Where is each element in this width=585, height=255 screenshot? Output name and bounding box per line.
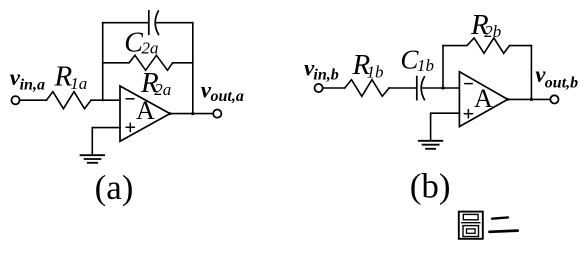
wire feedback right vertical (a) — [192, 23, 194, 114]
ground (a) — [81, 155, 105, 163]
node vin,b input terminal — [315, 84, 323, 92]
svg-text:in,b: in,b — [313, 66, 338, 83]
wire C1b to op-amp inverting input — [423, 87, 460, 89]
resistor R1a — [46, 92, 91, 109]
svg-text:2a: 2a — [154, 80, 171, 99]
node junction output (a) — [191, 112, 194, 115]
ground (b) — [419, 141, 443, 149]
node junction output (b) — [530, 98, 533, 101]
label v_out,a — [201, 77, 244, 105]
svg-text:2b: 2b — [484, 22, 501, 41]
svg-text:A: A — [136, 96, 155, 125]
op-amp A (b) inverting pin minus — [465, 83, 472, 85]
label v_in,a — [10, 65, 45, 93]
label v_in,b — [304, 56, 339, 84]
node vout,b output terminal — [550, 95, 558, 103]
node vout,a output terminal — [213, 110, 221, 118]
wire feedback left vertical (a) — [102, 23, 104, 101]
wire feedback left vertical (b) — [442, 46, 444, 88]
svg-text:1b: 1b — [367, 62, 384, 81]
node junction inverting input (a) — [102, 99, 104, 101]
capacitor C2a — [149, 11, 159, 35]
wire R1b to C1b — [389, 87, 417, 89]
wire output (b) — [508, 98, 551, 100]
wire capacitor branch left (a) — [103, 22, 149, 24]
svg-text:1b: 1b — [417, 56, 434, 75]
svg-text:out,a: out,a — [211, 88, 244, 105]
wire output (a) — [170, 113, 213, 115]
wire feedback right vertical (b) — [530, 46, 532, 100]
wire non-inverting input to ground (a) — [92, 128, 120, 155]
svg-text:(a): (a) — [95, 168, 134, 207]
svg-text:(b): (b) — [410, 166, 451, 205]
svg-text:in,a: in,a — [20, 76, 45, 93]
resistor R2b with leads — [443, 38, 531, 53]
label v_out,b — [535, 62, 578, 92]
op-amp A (b) triangle — [459, 72, 507, 127]
wire non-inverting input to ground (b) — [431, 113, 460, 140]
node vin,a input terminal — [11, 96, 19, 104]
wire vin,a to R1a — [20, 99, 47, 101]
label C1b — [400, 45, 434, 76]
resistor R1b — [345, 80, 389, 97]
label 圖二 (Figure 2) drawn as strokes — [459, 212, 518, 239]
op-amp A (a) inverting pin minus — [126, 98, 134, 100]
op-amp A (a) triangle — [120, 86, 170, 141]
op-amp A (a) non-inverting pin plus — [126, 123, 134, 131]
node junction inverting input (b) — [441, 86, 444, 89]
resistor R2a with leads — [103, 55, 193, 70]
wire vin,b to R1b — [323, 87, 345, 89]
capacitor C1b — [417, 77, 425, 100]
label R2a — [140, 67, 171, 99]
label R1b — [352, 49, 384, 82]
svg-text:A: A — [474, 84, 493, 113]
op-amp A (b) non-inverting pin plus — [464, 110, 472, 118]
wire R1a to op-amp inverting input — [91, 99, 120, 101]
svg-text:out,b: out,b — [545, 75, 578, 92]
label C2a — [124, 27, 158, 58]
svg-text:1a: 1a — [70, 74, 87, 93]
svg-text:2a: 2a — [142, 39, 159, 58]
label R2b — [470, 9, 501, 41]
svg-text:C: C — [124, 27, 143, 58]
label R1a — [54, 60, 88, 92]
wire capacitor branch right (a) — [157, 22, 193, 24]
